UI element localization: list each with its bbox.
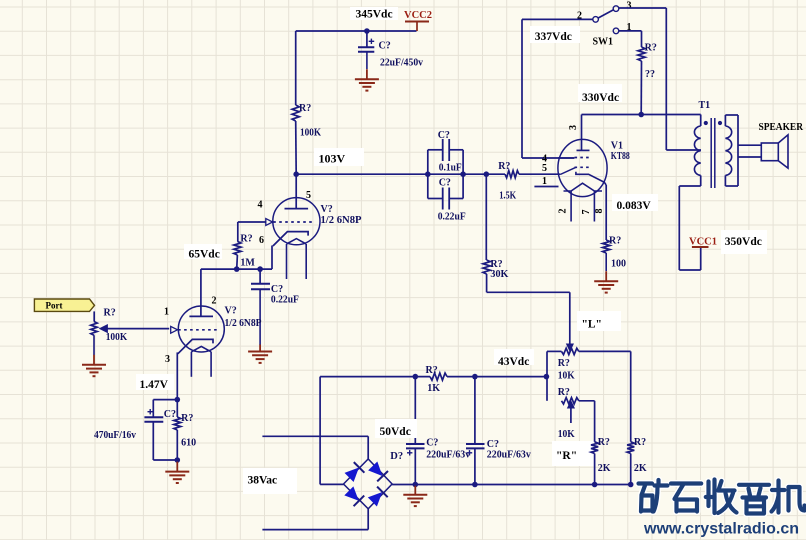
svg-text:0.1uF: 0.1uF [439,163,462,174]
svg-text:3: 3 [568,125,579,130]
svg-text:C?: C? [439,178,451,189]
wire port to pot [93,311,95,321]
label C? 0.22uF [271,284,299,306]
net label L [577,311,621,331]
wire cathode to RC [176,352,178,399]
svg-text:1: 1 [542,176,547,187]
svg-text:5: 5 [542,163,547,174]
diode upper-left [344,462,365,483]
svg-text:103V: 103V [319,152,346,166]
svg-text:50Vdc: 50Vdc [380,426,411,438]
net label 103V [314,148,364,166]
value label 22uF/450v [379,41,424,69]
labels coupling caps [438,130,466,223]
wire plate lead [581,115,583,151]
resistor R? 100K [292,105,299,121]
wiper arrow down [567,344,574,351]
label R? ?? [645,43,657,81]
junction dots cathode RC [175,397,181,463]
power VCC2 [404,10,432,31]
diode lower-right [367,487,388,508]
svg-text:2: 2 [558,209,569,214]
tube V1 KT88 [558,139,607,221]
capacitor C? 220uF/63v second [466,377,485,485]
svg-text:T1: T1 [699,100,711,111]
wire primary bottom to VCC1 [679,186,700,270]
svg-text:1M: 1M [240,258,255,269]
wire plate lead lower 6N8P [200,269,202,316]
net label 345Vdc [350,7,398,21]
junction at filter cap [364,28,370,34]
label D? [390,451,403,462]
wire to L pot wiper [487,274,570,344]
wire pot to ground [93,335,95,355]
resistor R? 1K [430,373,447,380]
switch SW1 [593,6,619,22]
wire cathode to R [605,185,607,240]
svg-text:2K: 2K [634,463,647,474]
port Port [34,299,94,311]
power VCC1 [689,237,717,271]
svg-text:"L": "L" [582,319,602,331]
svg-text:R?: R? [645,43,657,54]
resistor R? 2K right [627,442,634,454]
wire AC input top [262,436,368,459]
svg-text:C?: C? [426,438,438,449]
svg-text:SW1: SW1 [593,37,614,48]
ground [355,69,379,90]
resistor R? 100 [603,240,610,253]
svg-text:??: ?? [645,69,655,80]
svg-text:1/2 6N8P: 1/2 6N8P [225,318,262,329]
svg-text:1.5K: 1.5K [499,191,516,202]
label V1 KT88 [611,141,630,163]
net label 330Vdc [578,84,622,104]
svg-text:100K: 100K [106,332,128,343]
svg-text:350Vdc: 350Vdc [725,236,762,248]
wire ground rail [392,484,631,486]
wire pot right to R2K [579,351,631,441]
svg-text:R?: R? [240,234,252,245]
svg-text:R?: R? [104,308,116,319]
svg-text:KT88: KT88 [611,151,630,162]
svg-text:330Vdc: 330Vdc [582,92,619,104]
svg-text:1/2 6N8P: 1/2 6N8P [321,215,362,226]
svg-text:3: 3 [627,1,632,12]
wire to ground [605,253,607,271]
transformer T1 [694,115,738,189]
svg-text:30K: 30K [490,269,508,280]
net label 337Vdc [530,26,580,43]
tube V? 1/2 6N8P lower [171,306,225,377]
svg-text:10K: 10K [558,429,575,440]
wire to R 1M [237,222,239,241]
svg-text:V1: V1 [611,141,623,152]
logo crystalradio [639,480,805,514]
svg-text:0.22uF: 0.22uF [438,212,466,223]
pin numbers 3 2 7 8 [558,125,606,215]
svg-text:C?: C? [271,284,283,295]
resistor R? 610 [174,417,181,430]
svg-text:8: 8 [594,209,605,214]
pin numbers 1 2 3 [164,296,217,366]
svg-text:10K: 10K [558,371,575,382]
svg-text:V?: V? [321,204,333,215]
capacitors C? 0.1uF / C? 0.22uF coupling pair [428,139,463,210]
resistor R? 1M [234,241,241,255]
junction [638,112,644,118]
svg-text:SPEAKER: SPEAKER [759,122,804,133]
label R? 100K [104,308,128,344]
wire SRPP cathode node [201,246,272,270]
svg-text:V?: V? [225,306,237,317]
wire switch throw to transformer tap [619,8,701,150]
net label 350Vdc [721,230,767,254]
label R? 610 [181,413,196,449]
wire pot2 right to R2K [579,401,595,442]
svg-text:5: 5 [306,190,311,201]
wire switch common to KT88 g1 [522,19,593,158]
svg-text:2K: 2K [598,463,611,474]
wire pot left branch [547,351,562,400]
wire to rail [630,454,632,485]
pin numbers 5 4 6 [258,190,312,246]
label C? 220uF/63v [426,438,470,461]
svg-text:Port: Port [46,301,63,311]
label R? 1K [426,365,441,394]
net label 1.47V [136,374,174,391]
label SPEAKER [759,122,804,133]
label T1 [699,100,711,111]
capacitor C? 22uF/450v [358,31,374,69]
svg-text:3: 3 [165,354,170,365]
svg-text:R?: R? [426,365,438,376]
tube V? 1/2 6N8P upper [266,198,320,279]
svg-text:0.083V: 0.083V [617,200,652,212]
svg-text:"R": "R" [556,450,577,462]
svg-text:220uF/63v: 220uF/63v [487,450,531,461]
label V? 1/2 6N8P [225,306,262,330]
wire to speaker [738,145,761,157]
capacitor C? 220uF/63v first [406,377,425,485]
wire to R610 [176,400,178,417]
wiper arrow up with stub [568,401,575,423]
svg-text:43Vdc: 43Vdc [498,356,529,368]
svg-text:38Vac: 38Vac [248,475,278,487]
label C? 470uF/16v [94,409,176,441]
svg-text:1K: 1K [427,383,440,394]
wire R to plate node [640,61,642,115]
svg-text:100: 100 [611,259,626,270]
junction dots SRPP node [234,266,263,272]
svg-text:470uF/16v: 470uF/16v [94,430,136,441]
svg-text:VCC2: VCC2 [404,10,432,21]
svg-text:65Vdc: 65Vdc [189,249,220,261]
ground [594,271,618,292]
svg-text:1: 1 [164,307,169,318]
svg-text:100K: 100K [300,128,321,139]
svg-text:22uF/450v: 22uF/450v [380,58,423,69]
svg-text:6: 6 [259,235,264,246]
svg-text:R?: R? [558,387,570,398]
label V? 1/2 6N8P [321,204,362,226]
net label 38Vac [243,468,297,494]
label R? 100K [299,103,321,139]
potentiometer R? 10K upper [562,348,579,354]
wire rail to R anode resistor [295,31,297,105]
wire KT88 plate to transformer [582,114,701,116]
ground [165,462,189,483]
svg-text:4: 4 [258,200,263,211]
wire R610 to ground node [176,430,178,460]
wire pin1 stub [534,186,558,188]
wiper arrow and wire to grid [100,325,169,333]
potentiometer R? 100K [91,322,97,336]
svg-text:C?: C? [438,130,450,141]
junction dots 43V rail [413,374,550,380]
label R? 10K lower [558,387,575,440]
capacitor C? 470uF/16v [144,400,177,460]
net label 65Vdc [184,244,222,261]
label R? 2K right [634,437,647,474]
ground [403,486,427,506]
potentiometer R? 10K lower [562,398,579,404]
wire R to plate node [295,121,298,174]
net label 43Vdc [494,349,534,368]
ground [82,355,106,376]
junction dots on rail [293,171,489,177]
wire R1M to SRPP node [236,255,239,269]
svg-text:R?: R? [609,236,621,247]
svg-text:www.crystalradio.cn: www.crystalradio.cn [643,521,799,538]
label C? 220uF/63v second [487,439,531,461]
svg-text:VCC1: VCC1 [689,237,717,248]
svg-text:220uF/63v: 220uF/63v [426,450,470,461]
svg-text:R?: R? [558,358,570,369]
diode lower-left [344,486,365,507]
label R? 100 [609,236,626,270]
svg-text:1.47V: 1.47V [140,379,169,391]
svg-text:337Vdc: 337Vdc [535,31,572,43]
svg-text:7: 7 [581,210,592,215]
svg-text:610: 610 [181,438,196,449]
wire 43Vdc rail [320,376,546,378]
label R? 2K [598,437,611,474]
wire plate lead upper 6N8P [295,174,297,208]
wire top B+ rail [296,30,417,32]
wire node to R30K [485,174,487,260]
label R? 30K [490,259,508,280]
svg-text:R?: R? [598,437,610,448]
svg-text:R?: R? [299,103,311,114]
svg-text:C?: C? [487,439,499,450]
resistor R? 1.5K [505,171,519,178]
label R? 1.5K [498,161,516,202]
resistor R? 30K [483,260,490,274]
junction dots ground rail [413,482,634,488]
wire rail to bridge + [320,377,343,485]
diode upper-right [367,461,388,482]
svg-text:2: 2 [212,296,217,307]
svg-text:0.22uF: 0.22uF [271,295,299,306]
svg-text:R?: R? [498,161,510,172]
resistor R? ?? [638,47,645,61]
pin numbers 4 5 1 [542,154,547,187]
wire switch pin1 to R [613,28,641,47]
wire AC input bottom [262,509,368,530]
svg-text:D?: D? [390,451,403,462]
label R? 10K [558,358,575,382]
wire to rail [594,454,596,485]
net label R [552,441,594,466]
bridge rectifier D? outline [344,459,393,509]
wire plate node to KT88 grid rail [296,173,560,175]
svg-text:C?: C? [164,409,176,420]
capacitor C? 0.22uF cathode [251,269,270,345]
svg-text:R?: R? [634,437,646,448]
wire to grid [238,221,266,223]
label R? 1M [240,234,255,269]
ground [248,345,272,363]
svg-text:345Vdc: 345Vdc [356,9,393,21]
net label 50Vdc [375,419,417,438]
speaker SPEAKER [761,135,788,168]
svg-text:R?: R? [181,413,193,424]
svg-text:C?: C? [379,41,391,52]
labels SW1 pins [577,1,632,48]
net label 0.083V [612,194,658,212]
resistor R? 2K left [591,442,598,454]
